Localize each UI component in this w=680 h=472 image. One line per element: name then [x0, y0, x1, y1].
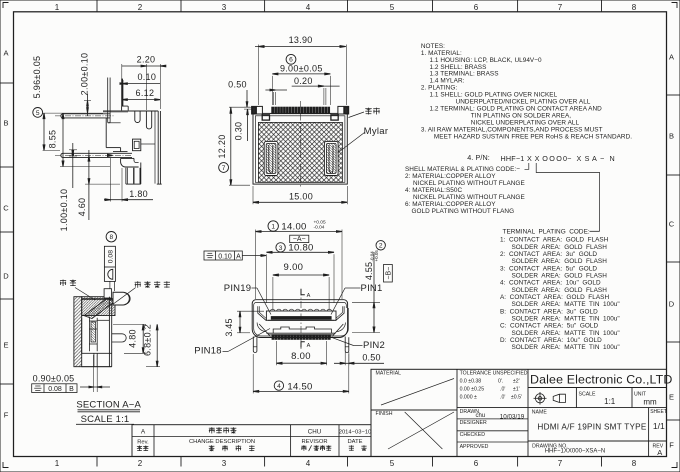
- centerline front view: [299, 101, 301, 188]
- svg-text:SECTION A−A: SECTION A−A: [76, 400, 141, 411]
- svg-text:5: 5: [390, 459, 395, 468]
- bottom view shell outline: [252, 289, 349, 353]
- svg-text:4.55: 4.55: [364, 262, 374, 280]
- svg-text:14.00: 14.00: [281, 221, 306, 232]
- svg-text:2: 2: [138, 459, 143, 468]
- lower contact block: [273, 327, 331, 333]
- svg-text:0'.: 0'.: [498, 379, 503, 385]
- svg-text:13.90: 13.90: [289, 35, 313, 45]
- crosshatched housing: [258, 122, 342, 182]
- svg-text:1: 1: [55, 3, 60, 12]
- section A-A view: [74, 281, 130, 366]
- svg-text:3: 3: [279, 245, 283, 252]
- corner spring clips: [259, 324, 270, 337]
- svg-text:O: O: [549, 154, 555, 163]
- svg-text:A: CONTACT AREA: GOLD FLAS: A: CONTACT AREA: GOLD FLASH: [500, 294, 609, 301]
- corner marks: [3, 3, 9, 9]
- svg-text:TIN PLATING ON SOLDER AREA: TIN PLATING ON SOLDER AREA,: [471, 112, 571, 119]
- svg-text:1.00±0.10: 1.00±0.10: [59, 189, 69, 232]
- mounting lug left: [252, 106, 263, 114]
- datum box -A-: [290, 235, 309, 242]
- svg-text:0.50: 0.50: [228, 79, 247, 89]
- revision table: [132, 425, 371, 457]
- svg-text:8.55: 8.55: [48, 130, 58, 149]
- svg-text:NICKEL PLATING WITHOUT FLAN: NICKEL PLATING WITHOUT FLANGE: [413, 180, 525, 187]
- feature control frame 0.10 A: [204, 251, 242, 260]
- svg-text:0.0 ±0.38: 0.0 ±0.38: [460, 379, 482, 385]
- svg-text:1.3 TERMINAL: BRASS: 1.3 TERMINAL: BRASS: [430, 71, 499, 78]
- svg-text:3.45: 3.45: [224, 318, 234, 336]
- svg-text:10/03/19: 10/03/19: [500, 414, 525, 421]
- svg-text:1.1 SHELL: GOLD PLATING OV: 1.1 SHELL: GOLD PLATING OVER NICKEL: [430, 92, 558, 99]
- svg-text:4: 4: [306, 459, 311, 468]
- svg-text:CHECKED: CHECKED: [460, 432, 486, 438]
- svg-text:2: CONTACT AREA: 3u" GOLD: 2: CONTACT AREA: 3u" GOLD: [500, 251, 597, 258]
- side view body: [55, 78, 162, 185]
- svg-text:A: A: [141, 428, 146, 435]
- right leg: [345, 337, 349, 353]
- zone ticks bottom: [96, 457, 98, 467]
- left shell wall hatched: [74, 297, 82, 367]
- svg-text:1.2 TERMINAL: GOLD PLATING: 1.2 TERMINAL: GOLD PLATING ON CONTACT AR…: [430, 105, 603, 112]
- svg-text:+0.05: +0.05: [314, 220, 326, 226]
- svg-text:SCALE 1:1: SCALE 1:1: [81, 414, 130, 425]
- svg-text:Dalee Electronic Co.,LTD: Dalee Electronic Co.,LTD: [530, 373, 672, 387]
- svg-text:1/1: 1/1: [653, 421, 665, 431]
- svg-text:B: CONTACT AREA: 3u" GOLD: B: CONTACT AREA: 3u" GOLD: [500, 308, 598, 315]
- front view shell outline: [252, 101, 349, 188]
- svg-text:A: A: [657, 448, 662, 457]
- svg-text:−B−: −B−: [386, 267, 393, 280]
- housing top block hatched: [82, 297, 115, 316]
- terminal teeth row: [272, 107, 274, 113]
- balloon 2: [376, 241, 385, 250]
- zone ticks top: [96, 1, 98, 12]
- svg-text:0.000 ±: 0.000 ±: [460, 394, 477, 400]
- svg-text:.0': .0': [500, 394, 505, 400]
- svg-text:0.30: 0.30: [234, 122, 244, 141]
- svg-text:C: CONTACT AREA: 5u" GOLD: C: CONTACT AREA: 5u" GOLD: [500, 323, 598, 330]
- svg-text:SCALE: SCALE: [579, 392, 597, 398]
- label 端子 (terminal): [60, 280, 66, 282]
- svg-text:chu: chu: [476, 413, 486, 419]
- svg-text:A: A: [592, 154, 597, 163]
- svg-text:8.00: 8.00: [291, 351, 311, 362]
- svg-text:3: 3: [222, 3, 227, 12]
- svg-text:4.80: 4.80: [128, 329, 138, 348]
- plastic hook top right: [113, 292, 129, 305]
- svg-text:PIN1: PIN1: [361, 283, 383, 294]
- svg-text:8: 8: [632, 459, 637, 468]
- svg-text:8: 8: [109, 234, 113, 241]
- svg-text:3: 3: [222, 459, 227, 468]
- central contact post: [89, 318, 97, 352]
- svg-text:B: B: [3, 119, 8, 128]
- svg-text:6: 6: [474, 459, 479, 468]
- svg-text:4. P/N:: 4. P/N:: [467, 153, 490, 162]
- svg-text:A: A: [307, 293, 311, 299]
- svg-text:-0.04: -0.04: [314, 225, 325, 231]
- svg-text:X: X: [577, 154, 582, 163]
- svg-text:1: CONTACT AREA: GOLD FLAS: 1: CONTACT AREA: GOLD FLASH: [500, 237, 609, 244]
- D-shape opening: [258, 306, 344, 321]
- svg-text:HHF−1XX000−XSA−N: HHF−1XX000−XSA−N: [545, 449, 606, 455]
- zone ticks left: [1, 82, 14, 84]
- svg-text:FINISH: FINISH: [376, 411, 393, 417]
- svg-text:7: 7: [558, 459, 563, 468]
- svg-text:12.20: 12.20: [217, 134, 227, 158]
- zone ticks right: [667, 94, 680, 96]
- svg-text:NICKEL UNDERPLATING OVER AL: NICKEL UNDERPLATING OVER ALL: [471, 119, 580, 126]
- svg-text:7: 7: [222, 165, 226, 172]
- svg-text:6: MATERIAL:COPPER ALLOY: 6: MATERIAL:COPPER ALLOY: [405, 201, 496, 208]
- svg-text:HHF−1: HHF−1: [501, 154, 525, 163]
- svg-text:0.08: 0.08: [48, 386, 62, 393]
- svg-text:4: 4: [306, 3, 311, 12]
- svg-text:A: A: [3, 49, 8, 58]
- svg-text:DATE: DATE: [347, 439, 362, 445]
- svg-text:mm: mm: [643, 398, 657, 407]
- svg-text:SOLDER AREA: GOLD FLASH: SOLDER AREA: GOLD FLASH: [512, 258, 608, 265]
- svg-text:SOLDER AREA: MATTE TIN 100: SOLDER AREA: MATTE TIN 100u": [512, 301, 620, 308]
- svg-text:7: 7: [558, 3, 563, 12]
- svg-text:E: E: [669, 393, 674, 402]
- D-shape lower edge: [266, 332, 335, 334]
- svg-text:SHEET: SHEET: [650, 409, 667, 415]
- svg-text:APPROVED: APPROVED: [460, 444, 489, 450]
- svg-text:±0.5': ±0.5': [511, 394, 522, 400]
- svg-text:5.96±0.05: 5.96±0.05: [32, 56, 42, 99]
- svg-text:1: 1: [55, 459, 60, 468]
- svg-text:1.80: 1.80: [129, 189, 148, 199]
- contact module right: [324, 141, 338, 175]
- svg-text:TOLERANCE UNSPECIFIED: TOLERANCE UNSPECIFIED: [460, 370, 528, 376]
- svg-text:1.4 MYLAR:: 1.4 MYLAR:: [430, 78, 465, 85]
- svg-text:HDMI A/F 19PIN SMT TYPE: HDMI A/F 19PIN SMT TYPE: [537, 423, 646, 432]
- svg-text:DESIGNER: DESIGNER: [460, 420, 487, 426]
- svg-text:SOLDER AREA: GOLD FLASH: SOLDER AREA: GOLD FLASH: [512, 244, 608, 251]
- tongue with upper contacts: [266, 311, 336, 320]
- svg-text:2014−03−10: 2014−03−10: [339, 429, 372, 435]
- svg-text:PIN2: PIN2: [363, 340, 385, 351]
- svg-text:CHU: CHU: [308, 429, 321, 436]
- svg-text:2: MATERIAL:COPPER ALLOY: 2: MATERIAL:COPPER ALLOY: [405, 173, 496, 180]
- balloon 6: [286, 54, 296, 64]
- svg-text:Mylar: Mylar: [364, 126, 389, 137]
- svg-text:UNDERPLATED/NICKEL PLATING O: UNDERPLATED/NICKEL PLATING OVER ALL: [456, 99, 591, 106]
- svg-text:NAME: NAME: [532, 409, 548, 415]
- svg-text:5: 5: [390, 3, 395, 12]
- svg-text:10.80: 10.80: [288, 243, 313, 254]
- svg-text:15.00: 15.00: [289, 191, 313, 201]
- svg-text:2: 2: [138, 3, 143, 12]
- svg-text:+0.05: +0.05: [374, 250, 379, 262]
- mounting lug right: [338, 106, 349, 114]
- svg-text:Rev.: Rev.: [137, 440, 149, 446]
- svg-text:B: B: [69, 386, 74, 393]
- body right edge: [108, 297, 110, 367]
- terminal top edge: [82, 298, 113, 300]
- svg-text:A: A: [669, 53, 674, 62]
- svg-text:A: A: [236, 253, 241, 260]
- svg-text:F: F: [669, 440, 674, 449]
- svg-text:6: 6: [474, 3, 479, 12]
- svg-text:X: X: [535, 154, 540, 163]
- svg-text:E: E: [3, 341, 8, 350]
- svg-text:6.8±0.2: 6.8±0.2: [143, 324, 153, 356]
- svg-text:3: CONTACT AREA: 5u" GOLD: 3: CONTACT AREA: 5u" GOLD: [500, 265, 597, 272]
- centerline bottom view: [300, 289, 302, 351]
- projection symbols: [535, 394, 544, 403]
- svg-text:SOLDER AREA: GOLD FLASH: SOLDER AREA: GOLD FLASH: [512, 287, 608, 294]
- bottom block: [82, 353, 112, 366]
- svg-text:GOLD PLATING WITHOUT FLANG: GOLD PLATING WITHOUT FLANG: [412, 208, 515, 215]
- svg-text:REVISOR: REVISOR: [301, 439, 327, 445]
- svg-text:14.50: 14.50: [287, 381, 312, 392]
- svg-text:SHELL MATERIAL & PLATING C: SHELL MATERIAL & PLATING CODE:−: [405, 166, 520, 173]
- svg-text:0−: 0−: [563, 154, 571, 163]
- label 外壳 (shell): [365, 108, 371, 110]
- unit cell: [631, 388, 633, 408]
- latch window right: [331, 115, 338, 120]
- svg-text:B: B: [669, 132, 674, 141]
- svg-text:SOLDER AREA: MATTE TIN 100: SOLDER AREA: MATTE TIN 100u": [512, 330, 620, 337]
- svg-text:1.1 HOUSING: LCP, BLACK, U: 1.1 HOUSING: LCP, BLACK, UL94V−0: [430, 57, 543, 64]
- leader from code X2 to terminal plating code: [536, 163, 599, 231]
- feature control frame 0.08 (rotated): [104, 246, 115, 281]
- svg-text:X: X: [527, 154, 532, 163]
- svg-text:1:1: 1:1: [604, 397, 616, 406]
- svg-text:F: F: [4, 411, 9, 420]
- leader from code X1: [525, 163, 529, 169]
- svg-text:±1': ±1': [513, 387, 520, 393]
- svg-text:1.2 SHELL: BRASS: 1.2 SHELL: BRASS: [430, 64, 487, 71]
- svg-text:8: 8: [632, 3, 637, 12]
- svg-text:PIN19: PIN19: [224, 283, 251, 294]
- svg-text:N: N: [610, 154, 615, 163]
- left leg: [253, 337, 257, 353]
- latch window left: [262, 115, 269, 120]
- svg-text:C: C: [669, 220, 675, 229]
- svg-text:D: D: [669, 300, 675, 309]
- svg-text:4: 4: [277, 383, 281, 390]
- svg-text:0.08: 0.08: [108, 250, 115, 263]
- svg-text:SOLDER AREA: GOLD FLASH: SOLDER AREA: GOLD FLASH: [512, 272, 608, 279]
- svg-text:2.00±0.10: 2.00±0.10: [79, 53, 89, 96]
- svg-text:TERMINAL PLATING CODE:: TERMINAL PLATING CODE:: [503, 229, 590, 236]
- svg-text:−: −: [600, 154, 604, 163]
- svg-text:D: CONTACT AREA: 10u" GOLD: D: CONTACT AREA: 10u" GOLD: [500, 337, 602, 344]
- svg-text:0.50: 0.50: [362, 352, 380, 362]
- svg-text:0.10: 0.10: [137, 72, 156, 82]
- balloon 4 and dimension 14.50: [274, 381, 283, 390]
- balloon 3 and dimension 10.80: [276, 243, 285, 252]
- balloon 1 and dimension 14.00: [268, 221, 278, 231]
- svg-text:5: 5: [36, 110, 40, 117]
- svg-text:9.00±0.05: 9.00±0.05: [280, 63, 323, 73]
- svg-text:2: 2: [379, 243, 383, 250]
- svg-text:C: C: [3, 204, 9, 213]
- svg-text:O: O: [556, 154, 562, 163]
- label 塑胶主体 (plastic body): [135, 281, 141, 283]
- svg-text:NOTES:: NOTES:: [421, 43, 445, 50]
- svg-text:0.10: 0.10: [218, 253, 232, 260]
- svg-text:1: 1: [271, 223, 275, 230]
- section arrow A top: [301, 289, 305, 295]
- contact module left: [264, 141, 278, 175]
- svg-text:4: MATERIAL:S50C: 4: MATERIAL:S50C: [405, 187, 462, 194]
- svg-text:0.00 ±0.25: 0.00 ±0.25: [460, 387, 485, 393]
- svg-text:4: CONTACT AREA: 10u" GOLD: 4: CONTACT AREA: 10u" GOLD: [500, 280, 601, 287]
- svg-text:SOLDER AREA: MATTE TIN 100: SOLDER AREA: MATTE TIN 100u": [512, 344, 620, 351]
- svg-text:S: S: [585, 154, 590, 163]
- svg-text:3. All RAW MATERIAL,COMPONE: 3. All RAW MATERIAL,COMPONENTS,AND PROCE…: [421, 126, 603, 133]
- svg-text:±2': ±2': [513, 379, 520, 385]
- svg-text:CHANGE DESCRIPTION: CHANGE DESCRIPTION: [189, 439, 255, 445]
- svg-text:1. MATERIAL:: 1. MATERIAL:: [421, 50, 462, 57]
- title block outline: [371, 369, 667, 456]
- svg-text:PIN18: PIN18: [194, 346, 221, 357]
- svg-text:0.20: 0.20: [294, 76, 313, 86]
- svg-text:6.12: 6.12: [136, 88, 155, 98]
- section arrow A bottom: [301, 342, 305, 348]
- sheet cell: [648, 408, 650, 457]
- svg-text:2.20: 2.20: [137, 55, 156, 65]
- solder pin right: [112, 334, 127, 342]
- internal lines: [82, 315, 90, 317]
- svg-text:O: O: [542, 154, 548, 163]
- svg-text:4.60: 4.60: [77, 198, 87, 217]
- svg-text:9.00: 9.00: [284, 262, 304, 273]
- tab above hook: [104, 289, 111, 298]
- svg-text:A: A: [307, 343, 311, 349]
- svg-text:D: D: [3, 272, 9, 281]
- scale cell: [575, 388, 577, 408]
- svg-text:2. PLATING:: 2. PLATING:: [421, 85, 457, 92]
- svg-text:MATERIAL: MATERIAL: [376, 371, 402, 377]
- svg-text:NICKEL PLATING WITHOUT FLAN: NICKEL PLATING WITHOUT FLANGE: [413, 194, 525, 201]
- svg-text:.0': .0': [500, 387, 505, 393]
- svg-text:MEET HAZARD SUSTAIN FREE P: MEET HAZARD SUSTAIN FREE PER RoHS & REAC…: [434, 133, 632, 140]
- lower comb teeth: [272, 335, 274, 339]
- terminal angled hatched: [84, 298, 114, 319]
- svg-text:SOLDER AREA: MATTE TIN 100: SOLDER AREA: MATTE TIN 100u": [512, 315, 620, 322]
- svg-text:0.90±0.05: 0.90±0.05: [33, 373, 75, 383]
- balloon 8: [106, 232, 116, 242]
- datum frame 0.08 B: [32, 384, 77, 393]
